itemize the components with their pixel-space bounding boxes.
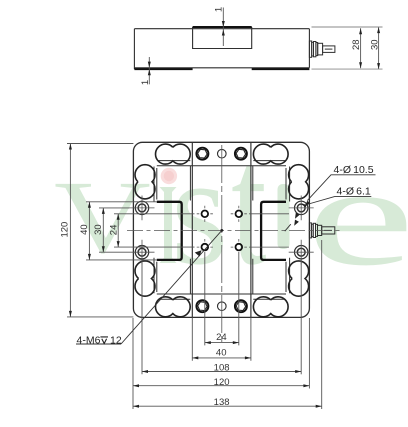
svg-text:e: e bbox=[306, 138, 408, 295]
svg-text:40: 40 bbox=[216, 347, 227, 358]
svg-text:4-Ø 6.1: 4-Ø 6.1 bbox=[337, 186, 371, 198]
svg-text:120: 120 bbox=[60, 222, 71, 238]
svg-text:40: 40 bbox=[79, 224, 90, 235]
svg-text:1: 1 bbox=[140, 80, 151, 85]
svg-text:12: 12 bbox=[110, 335, 122, 347]
svg-text:4-Ø 10.5: 4-Ø 10.5 bbox=[334, 164, 374, 176]
svg-text:108: 108 bbox=[214, 363, 230, 374]
svg-text:30: 30 bbox=[93, 224, 104, 235]
svg-text:4-M6: 4-M6 bbox=[77, 335, 101, 347]
svg-text:138: 138 bbox=[214, 397, 230, 408]
svg-text:24: 24 bbox=[216, 332, 227, 343]
svg-text:24: 24 bbox=[108, 225, 119, 236]
svg-text:30: 30 bbox=[369, 39, 380, 50]
svg-text:1: 1 bbox=[214, 7, 225, 12]
svg-text:28: 28 bbox=[351, 39, 362, 50]
svg-text:V: V bbox=[54, 159, 151, 274]
svg-text:120: 120 bbox=[214, 377, 230, 388]
